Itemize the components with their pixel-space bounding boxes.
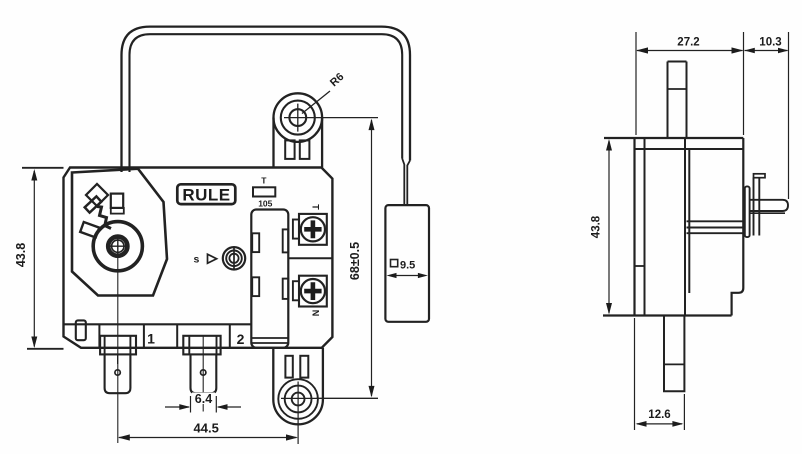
- dim 6.4 text mask: [192, 393, 215, 405]
- dim 44.5: dim line: [119, 437, 297, 439]
- cam plate polygon: [72, 169, 167, 296]
- terminal 1 crimp line: [117, 354, 119, 364]
- dim 43.8 front: dim line: [33, 171, 35, 347]
- svg-text:9.5: 9.5: [400, 260, 415, 272]
- cam square: [111, 194, 123, 208]
- adjustment screw circles: [223, 247, 245, 269]
- side flange tick: [635, 265, 645, 267]
- dim 27.2 line: [637, 50, 743, 52]
- divider line between terminals: [288, 257, 332, 259]
- cam inner ring: [108, 237, 127, 256]
- svg-text:43.8: 43.8: [14, 243, 28, 267]
- bottom ear crosshair: [281, 382, 378, 445]
- terminal N square: [299, 276, 327, 307]
- side flange line: [644, 138, 646, 316]
- svg-text:RULE: RULE: [182, 185, 230, 204]
- cam big circle: [93, 222, 142, 271]
- svg-text:2: 2: [237, 331, 245, 347]
- R6 leader line: [302, 91, 330, 114]
- dim 6.4: extension lines: [191, 396, 217, 413]
- svg-text:43.8: 43.8: [591, 215, 603, 238]
- dim 68: dim line: [371, 120, 373, 396]
- top ear outer circle: [274, 93, 323, 142]
- switch block right tabs: [283, 229, 289, 252]
- side T plate: [754, 178, 760, 236]
- cam hole: [112, 240, 124, 252]
- top mounting ear tab: [274, 118, 323, 168]
- svg-text:68±0.5: 68±0.5: [348, 242, 362, 280]
- capillary tube inner wall: [130, 34, 403, 172]
- top ear slots: [285, 140, 294, 159]
- side top tab inner line: [668, 88, 687, 90]
- dim 68: extension lines: [312, 118, 378, 399]
- dim 10.3 extension line: [788, 32, 790, 199]
- terminal L screw: [301, 217, 325, 241]
- top ear crosshair: [284, 104, 312, 132]
- dim 27.2 extension lines: [636, 32, 744, 135]
- cam centerline down to dim: [117, 257, 119, 443]
- cam left tab: [80, 222, 99, 238]
- svg-text:10.3: 10.3: [759, 37, 781, 49]
- svg-text:N: N: [311, 310, 321, 317]
- terminal 2 base: [183, 336, 220, 355]
- side bottom edge: [603, 314, 732, 316]
- capillary tube outer wall: [122, 27, 411, 172]
- terminal 2 hole: [201, 370, 206, 375]
- svg-text:6.4: 6.4: [195, 392, 212, 406]
- side bottom tab divider: [664, 363, 684, 365]
- dim 43.8 front: extension lines: [22, 168, 64, 349]
- side body top edge: [604, 137, 743, 139]
- side central vertical lines: [685, 138, 689, 316]
- side right edge: [732, 138, 744, 316]
- dim 12.6 arrows: [637, 423, 682, 425]
- svg-text:12.6: 12.6: [648, 409, 670, 421]
- bulb width arrows: [390, 275, 424, 277]
- svg-text:s: s: [194, 254, 200, 266]
- bottom strip top line: [64, 323, 252, 325]
- switch block: [251, 210, 288, 348]
- svg-text:R6: R6: [328, 71, 346, 89]
- adjustment triangle: [208, 254, 217, 263]
- terminal 2 blade: [191, 354, 217, 393]
- bottom ear slots: [285, 356, 292, 378]
- svg-text:27.2: 27.2: [677, 37, 699, 49]
- cam diamond: [86, 184, 108, 206]
- top ear middle circle: [281, 101, 315, 135]
- svg-text:T: T: [261, 176, 267, 186]
- bottom ear circles: [278, 379, 318, 419]
- terminal L side tab: [293, 220, 299, 239]
- terminal N screw: [301, 279, 325, 303]
- side top tab: [668, 62, 687, 139]
- cam square lower: [111, 208, 124, 214]
- svg-text:T: T: [311, 204, 321, 210]
- side body left edge: [633, 138, 635, 316]
- terminal 1 base: [100, 336, 136, 355]
- terminal L square: [299, 214, 327, 245]
- capillary thin tube: [402, 159, 410, 206]
- svg-text:105: 105: [258, 199, 272, 209]
- strip slot: [76, 320, 86, 340]
- terminal 1 hole: [115, 370, 120, 375]
- switch block bottom lines: [251, 338, 288, 343]
- cam tilted pad: [85, 196, 102, 212]
- bottom mounting ear tab: [273, 348, 323, 425]
- cam stepped lever: [97, 207, 111, 229]
- dim 6.4: arrows outside: [165, 406, 241, 408]
- side spade lower line: [750, 212, 786, 214]
- strip dividers: [99, 324, 229, 348]
- dim 12.6 extension lines: [635, 318, 685, 430]
- svg-text:1: 1: [147, 331, 155, 347]
- adjustment screw slot: [233, 247, 235, 271]
- dim 43.8 side: dim line: [608, 141, 610, 313]
- cam crosshair: [109, 237, 127, 255]
- side spade terminal: [750, 200, 789, 211]
- side body second top line: [635, 148, 744, 150]
- switch block left tabs: [252, 233, 259, 252]
- side shelf lines: [687, 221, 744, 233]
- svg-text:44.5: 44.5: [194, 421, 219, 436]
- dim 10.3 line: [745, 50, 788, 52]
- bulb label 9.5: [391, 260, 398, 267]
- front view body outline: [64, 168, 333, 348]
- terminal N side tab: [293, 281, 299, 300]
- top ear hole circle: [289, 109, 306, 126]
- RULE logo box: [177, 184, 235, 204]
- terminal 2 centerline: [202, 337, 204, 412]
- side terminal bracket bar: [745, 186, 750, 237]
- sensor bulb: [385, 205, 429, 322]
- side bottom tab: [664, 316, 684, 392]
- terminal 1 blade: [105, 354, 131, 393]
